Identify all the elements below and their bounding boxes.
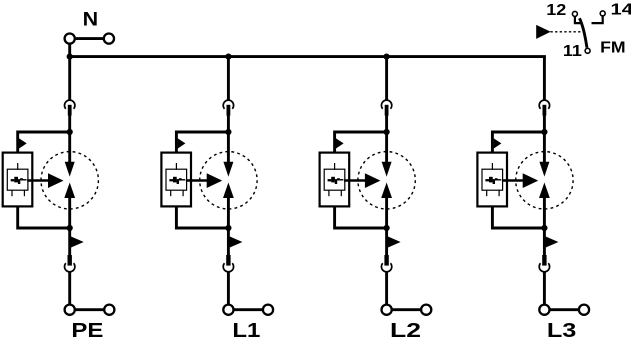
contact 11 circle [585, 48, 590, 53]
svg-text:11: 11 [563, 43, 582, 60]
wire terminal link L2 [393, 308, 421, 311]
disconnector flag top L3 [494, 138, 502, 148]
plug-in connector top L2 (socket + pin) [381, 100, 391, 115]
trigger element inner box L1 [166, 169, 187, 190]
svg-text:14: 14 [611, 1, 631, 18]
wire L3 upper segment [543, 115, 546, 165]
wire branch PE drop [68, 56, 71, 101]
spark gap electrodes PE [64, 162, 75, 198]
wire PE upper segment [68, 115, 71, 165]
spark gap electrodes L1 [223, 162, 234, 198]
node trigger tap junction bottom L1 [225, 225, 231, 231]
disconnector flag bottom L3 [545, 236, 558, 248]
trigger arrow L3 [502, 173, 538, 188]
disconnector flag top PE [19, 138, 27, 148]
node bus junction L2 [384, 54, 390, 60]
wire terminal link PE [76, 308, 104, 311]
spark gap electrodes L3 [539, 162, 550, 198]
wire trigger tap bottom L3 [492, 206, 544, 228]
wire bus rail [68, 55, 546, 58]
terminal circle L3 right [579, 305, 589, 315]
node trigger tap junction bottom L3 [541, 225, 547, 231]
disconnector flag bottom L1 [229, 236, 242, 248]
node trigger tap junction bottom L2 [384, 225, 390, 231]
disconnector flag bottom PE [71, 236, 84, 248]
trigger element leads PE [12, 163, 24, 196]
spark gap enclosure dashed circle L3 [516, 152, 573, 209]
trigger circuit outer box L1 [161, 153, 191, 207]
wire terminal link L1 [234, 308, 262, 311]
wire N terminal link [76, 37, 103, 40]
spark gap enclosure dashed circle L1 [200, 152, 257, 209]
wire PE to terminal [68, 271, 71, 305]
plug-in connector bottom PE (pin + socket) [65, 255, 75, 272]
contact 12 (circle + hook) [572, 11, 581, 23]
node trigger tap junction top PE [67, 129, 73, 135]
changeover lever [580, 18, 587, 47]
wire L2 lower segment [385, 198, 388, 256]
spark gap enclosure dashed circle PE [41, 152, 98, 209]
plug-in connector bottom L3 (pin + socket) [539, 255, 549, 272]
wire branch L2 drop [385, 56, 388, 101]
terminal circle N left [65, 34, 75, 44]
terminal circle L3 left [539, 305, 549, 315]
disconnector flag top L2 [336, 138, 344, 148]
wire PE lower segment [68, 198, 71, 256]
trigger element leads L3 [487, 163, 499, 196]
svg-text:12: 12 [546, 2, 566, 19]
spark gap enclosure dashed circle L2 [358, 152, 415, 209]
wire trigger tap top PE [18, 132, 70, 153]
node trigger tap junction top L3 [541, 129, 547, 135]
node bus junction PE [67, 54, 73, 60]
trigger element symbol L1 [169, 177, 185, 184]
wire L3 to terminal [543, 271, 546, 305]
spark gap electrodes L2 [381, 162, 392, 198]
node trigger tap junction bottom PE [67, 225, 73, 231]
svg-text:L3: L3 [547, 319, 577, 337]
trigger element leads L2 [329, 163, 341, 196]
svg-text:L1: L1 [232, 319, 260, 337]
wire branch L1 drop [227, 56, 230, 101]
disconnector flag top L1 [178, 138, 186, 148]
svg-text:L2: L2 [390, 319, 421, 337]
trigger circuit outer box PE [3, 153, 33, 207]
wire L3 lower segment [543, 198, 546, 256]
wire N drop to bus [68, 44, 71, 58]
wire trigger tap bottom PE [18, 206, 70, 228]
plug-in connector top PE (socket + pin) [65, 100, 75, 115]
trigger element symbol L2 [328, 177, 344, 184]
wire L1 upper segment [227, 115, 230, 165]
wire L1 lower segment [227, 198, 230, 256]
trigger arrow L2 [344, 173, 380, 188]
plug-in connector top L3 (socket + pin) [539, 100, 549, 115]
terminal circle L2 right [421, 305, 431, 315]
trigger element inner box L3 [482, 169, 503, 190]
wire branch L3 drop [543, 56, 546, 101]
trigger element inner box L2 [324, 169, 345, 190]
wire L2 to terminal [385, 271, 388, 305]
wire trigger tap top L3 [492, 132, 544, 153]
disconnector flag bottom L2 [387, 236, 400, 248]
terminal circle L1 left [223, 305, 233, 315]
wire terminal link L3 [550, 308, 578, 311]
node trigger tap junction top L1 [225, 129, 231, 135]
trigger arrow L1 [186, 173, 222, 188]
actuator flag (FM) [536, 25, 551, 39]
trigger arrow PE [27, 173, 63, 188]
wire L1 to terminal [227, 271, 230, 305]
wire trigger tap bottom L1 [176, 206, 228, 228]
plug-in connector top L1 (socket + pin) [223, 100, 233, 115]
plug-in connector bottom L1 (pin + socket) [223, 255, 233, 272]
trigger element symbol PE [11, 177, 27, 184]
terminal circle N right [104, 34, 114, 44]
node bus junction L1 [225, 54, 231, 60]
trigger element leads L1 [171, 163, 183, 196]
terminal circle L1 right [263, 305, 273, 315]
dashed actuator link [551, 31, 584, 33]
trigger circuit outer box L2 [320, 153, 350, 207]
trigger element inner box PE [7, 169, 28, 190]
wire trigger tap bottom L2 [335, 206, 387, 228]
svg-text:N: N [83, 10, 99, 31]
trigger circuit outer box L3 [477, 153, 507, 207]
trigger element symbol L3 [485, 177, 501, 184]
wire trigger tap top L2 [335, 132, 387, 153]
plug-in connector bottom L2 (pin + socket) [381, 255, 391, 272]
contact 14 (circle + hook) [592, 11, 606, 23]
wire L2 upper segment [385, 115, 388, 165]
wire trigger tap top L1 [176, 132, 228, 153]
svg-text:FM: FM [600, 39, 626, 56]
node trigger tap junction top L2 [384, 129, 390, 135]
terminal circle PE right [104, 305, 114, 315]
terminal circle PE left [65, 305, 75, 315]
terminal circle L2 left [382, 305, 392, 315]
svg-text:PE: PE [71, 319, 103, 337]
